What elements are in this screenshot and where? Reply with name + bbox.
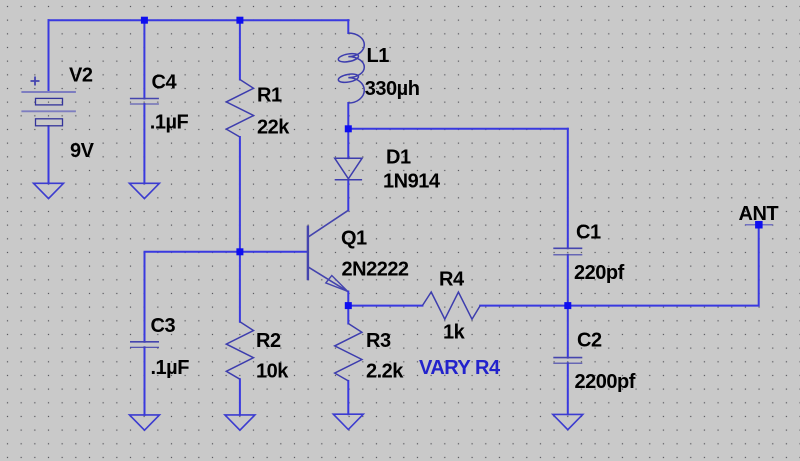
- svg-text:L1: L1: [367, 45, 390, 67]
- svg-text:2.2k: 2.2k: [366, 361, 404, 383]
- svg-text:C4: C4: [152, 72, 178, 94]
- svg-text:R3: R3: [366, 330, 391, 352]
- svg-text:VARY R4: VARY R4: [419, 357, 501, 379]
- svg-text:C3: C3: [151, 315, 176, 337]
- svg-text:330µh: 330µh: [365, 78, 420, 100]
- svg-text:R2: R2: [256, 330, 281, 352]
- svg-text:R4: R4: [439, 269, 465, 291]
- svg-text:2N2222: 2N2222: [342, 259, 409, 281]
- svg-text:10k: 10k: [256, 361, 289, 383]
- svg-text:C1: C1: [576, 221, 601, 243]
- svg-text:.1µF: .1µF: [150, 111, 189, 133]
- svg-text:C2: C2: [577, 330, 602, 352]
- svg-text:Q1: Q1: [341, 228, 367, 250]
- svg-text:220pf: 220pf: [574, 262, 625, 284]
- svg-text:2200pf: 2200pf: [575, 371, 636, 393]
- svg-text:22k: 22k: [257, 117, 290, 139]
- svg-text:ANT: ANT: [739, 203, 779, 225]
- svg-text:1N914: 1N914: [383, 171, 441, 193]
- svg-text:V2: V2: [69, 65, 93, 87]
- svg-text:R1: R1: [257, 85, 282, 107]
- svg-text:.1µF: .1µF: [151, 357, 190, 379]
- svg-text:1k: 1k: [443, 322, 466, 344]
- svg-text:D1: D1: [386, 147, 411, 169]
- svg-text:9V: 9V: [70, 140, 95, 162]
